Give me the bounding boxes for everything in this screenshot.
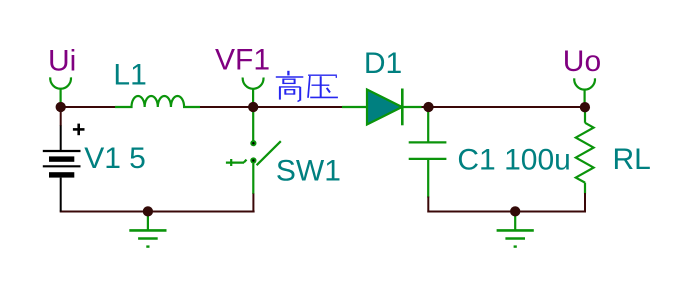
svg-text:V1: V1 — [84, 142, 121, 175]
svg-text:5: 5 — [129, 142, 146, 175]
svg-text:C1 100u: C1 100u — [457, 143, 570, 176]
svg-text:VF1: VF1 — [215, 44, 270, 77]
svg-text:L1: L1 — [113, 59, 146, 92]
svg-text:SW1: SW1 — [276, 155, 341, 188]
svg-text:Ui: Ui — [48, 45, 76, 78]
svg-text:RL: RL — [613, 143, 651, 176]
svg-text:D1: D1 — [364, 47, 402, 80]
svg-text:Uo: Uo — [563, 45, 601, 78]
